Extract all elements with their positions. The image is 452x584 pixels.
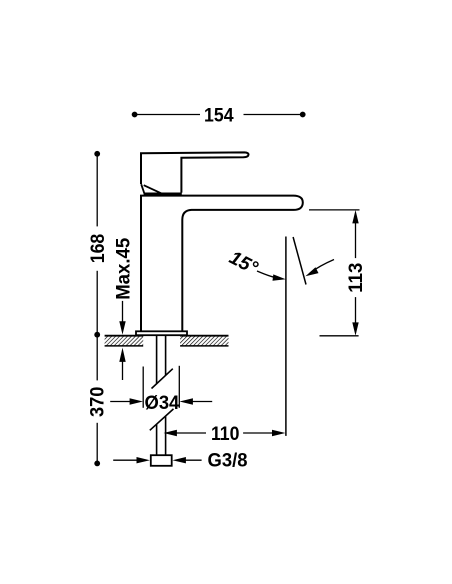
G3/8 left arrow line <box>113 459 138 461</box>
supply pipe lower segments <box>156 425 158 456</box>
countertop right hatched block <box>180 336 228 346</box>
svg-text:Ø34: Ø34 <box>145 393 180 414</box>
water stream 15 deg slanted line <box>293 237 306 285</box>
15 deg right leader arrowhead <box>305 267 318 276</box>
faucet handle lever outline <box>141 152 249 192</box>
dimension 113 bottom arrowhead <box>352 322 358 335</box>
svg-text:168: 168 <box>88 234 109 264</box>
Max.45 upper arrow line <box>122 301 124 322</box>
dimension 113 top arrowhead <box>352 210 358 223</box>
svg-text:15°: 15° <box>226 247 261 279</box>
Max.45 lower arrow line <box>122 361 124 380</box>
G3/8 right arrowhead <box>173 457 186 463</box>
svg-text:113: 113 <box>346 263 367 293</box>
water stream vertical line <box>285 237 287 436</box>
15 deg left leader curve <box>257 271 281 279</box>
faucet body and spout outline <box>141 196 303 331</box>
handle base chamfer <box>141 184 161 193</box>
dimension 113 extension line top <box>309 209 360 211</box>
cartridge cap thick line <box>144 193 182 196</box>
countertop left hatched block <box>105 336 144 346</box>
svg-text:Max.45: Max.45 <box>114 237 135 299</box>
diameter 34 left arrowhead <box>130 398 143 404</box>
G3/8 right arrow line <box>185 459 202 461</box>
mounting flange <box>136 331 187 335</box>
dimension 110 line <box>175 432 274 434</box>
dimension 168 end dots <box>94 151 100 157</box>
svg-text:110: 110 <box>211 424 240 445</box>
G3/8 connector body <box>151 455 172 466</box>
dimension 113 extension line bottom <box>320 335 359 337</box>
diameter 34 left arrow line <box>110 401 131 403</box>
Max.45 upper arrowhead <box>119 321 125 334</box>
dimension 113 line <box>355 222 357 324</box>
pipe break mark upper <box>152 369 173 389</box>
svg-text:G3/8: G3/8 <box>208 451 248 472</box>
diameter 34 right arrowhead <box>180 398 193 404</box>
diameter 34 extension lines <box>143 366 179 408</box>
dimension 110 left arrowhead <box>164 430 177 436</box>
svg-text:154: 154 <box>204 105 234 126</box>
15 deg right leader curve <box>310 260 334 274</box>
15 deg left leader arrowhead <box>273 274 286 280</box>
pipe break mark lower <box>150 409 174 430</box>
G3/8 left arrowhead <box>137 457 150 463</box>
svg-text:370: 370 <box>88 387 109 418</box>
dimension 154 end dots <box>132 112 138 118</box>
dimension 154 line <box>137 114 301 116</box>
dimension 370 end dot <box>94 461 100 467</box>
dimension 370 line <box>96 337 98 461</box>
dimension 168 line <box>96 156 98 332</box>
supply pipe upper segments <box>150 336 174 456</box>
dimension 110 right arrowhead <box>272 430 285 436</box>
Max.45 lower arrowhead <box>119 348 125 362</box>
diameter 34 right arrow line <box>192 401 213 403</box>
